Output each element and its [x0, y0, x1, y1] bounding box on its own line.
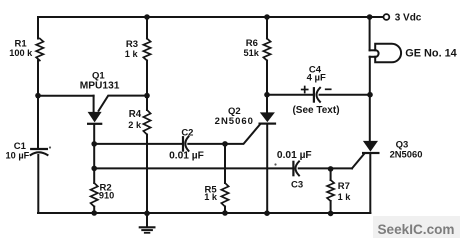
- svg-text:910: 910: [99, 190, 114, 200]
- svg-text:4 µF: 4 µF: [307, 72, 326, 83]
- svg-text:C2: C2: [181, 128, 193, 139]
- svg-text:2N5060: 2N5060: [215, 116, 254, 127]
- svg-text:100 k: 100 k: [9, 48, 33, 58]
- svg-text:SeekIC.com: SeekIC.com: [377, 222, 454, 237]
- svg-text:C3: C3: [291, 180, 303, 191]
- svg-text:MPU131: MPU131: [80, 80, 120, 91]
- svg-text:10 µF: 10 µF: [6, 151, 30, 161]
- svg-text:2 k: 2 k: [128, 120, 142, 130]
- svg-text:0.01 µF: 0.01 µF: [169, 151, 204, 162]
- svg-text:1 k: 1 k: [204, 192, 218, 202]
- svg-text:GE No. 14: GE No. 14: [405, 48, 456, 60]
- svg-text:R4: R4: [129, 109, 142, 120]
- svg-text:1 k: 1 k: [125, 49, 139, 59]
- svg-text:2N5060: 2N5060: [390, 149, 423, 160]
- svg-text:R7: R7: [338, 181, 350, 192]
- svg-text:0.01 µF: 0.01 µF: [277, 150, 312, 161]
- svg-text:3 Vdc: 3 Vdc: [395, 13, 422, 24]
- svg-text:(See Text): (See Text): [292, 105, 339, 116]
- svg-text:51k: 51k: [244, 48, 260, 58]
- svg-text:1 k: 1 k: [338, 192, 352, 202]
